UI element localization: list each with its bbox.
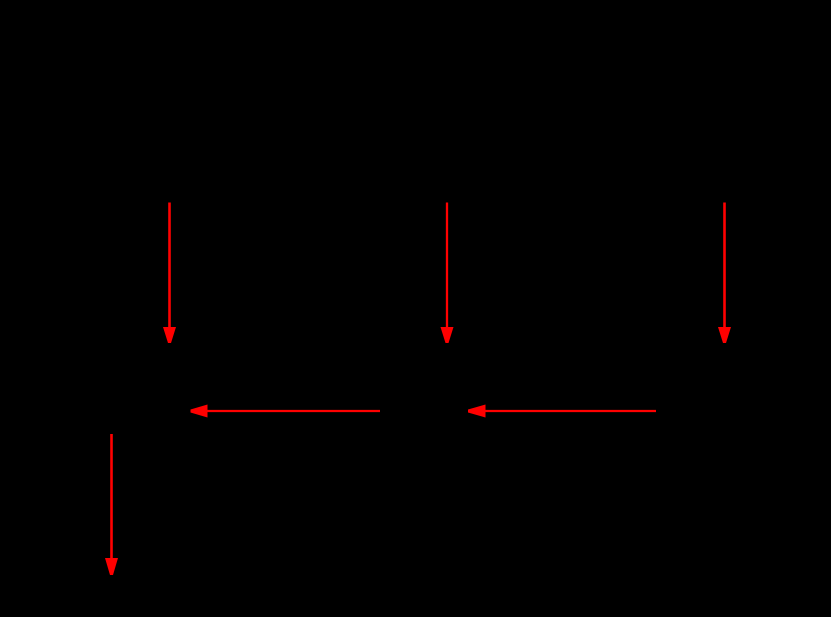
arrow A6: bottom-left, pointing down: [105, 434, 118, 575]
arrow A1: top-left column, pointing down: [163, 203, 176, 344]
arrow A4: middle row right-to-left, pointing left: [191, 405, 381, 418]
arrow A3: top-right column, pointing down: [718, 203, 731, 344]
arrow A5: middle row right-to-left (second), pointing left: [468, 405, 656, 418]
arrow A2: top-middle column, pointing down: [441, 203, 454, 344]
